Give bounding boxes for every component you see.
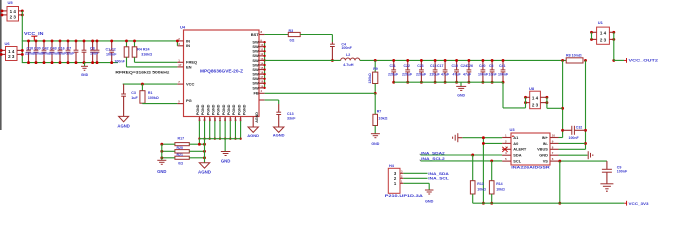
svg-text:100nF: 100nF <box>617 169 628 173</box>
svg-text:L2: L2 <box>346 53 350 57</box>
svg-text:SW: SW <box>252 85 259 90</box>
svg-text:R14: R14 <box>496 182 502 186</box>
svg-text:10kΩ: 10kΩ <box>477 188 486 192</box>
svg-text:RFREQ=316kΩ 500kHz: RFREQ=316kΩ 500kHz <box>115 70 169 75</box>
svg-text:R4 R24: R4 R24 <box>137 48 149 52</box>
svg-text:R21: R21 <box>177 153 183 157</box>
svg-text:220uF: 220uF <box>430 73 441 77</box>
svg-text:VCC: VCC <box>186 82 195 87</box>
svg-text:IN+: IN+ <box>542 135 549 140</box>
svg-text:C43: C43 <box>50 47 57 51</box>
svg-text:VCC_OUT2: VCC_OUT2 <box>629 57 660 62</box>
svg-text:14: 14 <box>218 118 222 122</box>
svg-text:C22: C22 <box>404 64 410 68</box>
svg-text:0Ω: 0Ω <box>178 162 183 166</box>
svg-text:C8: C8 <box>90 47 95 51</box>
svg-text:PGND: PGND <box>237 104 241 115</box>
svg-text:C42: C42 <box>42 47 49 51</box>
svg-text:C3: C3 <box>131 91 136 95</box>
svg-text:33nF: 33nF <box>287 117 296 121</box>
svg-text:U8: U8 <box>529 86 535 91</box>
svg-text:13: 13 <box>213 118 217 122</box>
svg-text:R17: R17 <box>178 137 185 141</box>
svg-text:C17: C17 <box>437 64 443 68</box>
svg-text:C41: C41 <box>499 64 505 68</box>
svg-text:A0: A0 <box>513 141 518 146</box>
svg-text:316kΩ: 316kΩ <box>141 53 152 57</box>
svg-text:U3: U3 <box>510 127 516 132</box>
svg-text:10kΩ: 10kΩ <box>378 117 387 121</box>
svg-text:PGND: PGND <box>242 104 246 115</box>
svg-text:10uF: 10uF <box>66 52 75 56</box>
svg-text:PGND: PGND <box>196 104 200 115</box>
svg-text:47uF: 47uF <box>453 73 462 77</box>
svg-text:47uF: 47uF <box>463 73 472 77</box>
svg-text:VCC_IN: VCC_IN <box>24 31 44 36</box>
svg-text:C40: C40 <box>479 64 485 68</box>
svg-text:47uF: 47uF <box>441 73 450 77</box>
svg-text:4.7uH: 4.7uH <box>343 63 354 67</box>
svg-text:U5: U5 <box>8 0 14 5</box>
svg-text:16: 16 <box>228 118 232 122</box>
svg-text:VCC_3V3: VCC_3V3 <box>629 201 650 206</box>
svg-text:10: 10 <box>198 118 202 122</box>
svg-text:0Ω: 0Ω <box>290 38 295 42</box>
svg-text:VBUS: VBUS <box>537 147 548 152</box>
svg-text:220uF: 220uF <box>388 73 399 77</box>
svg-text:PGND: PGND <box>222 104 226 115</box>
svg-text:12: 12 <box>208 118 212 122</box>
svg-text:R20: R20 <box>177 146 183 150</box>
svg-text:R8 10mΩ: R8 10mΩ <box>566 53 582 57</box>
svg-text:R7: R7 <box>377 110 382 114</box>
svg-text:220uF: 220uF <box>416 73 427 77</box>
svg-text:C16: C16 <box>58 47 65 51</box>
svg-text:11: 11 <box>203 118 207 121</box>
svg-text:AGND: AGND <box>255 112 259 123</box>
svg-text:PGND: PGND <box>232 104 236 115</box>
svg-text:R1: R1 <box>148 91 153 95</box>
svg-text:C32: C32 <box>576 126 582 130</box>
svg-text:SDA: SDA <box>513 153 521 158</box>
svg-text:18: 18 <box>239 118 243 122</box>
svg-text:INA226AIDGSR: INA226AIDGSR <box>511 166 550 170</box>
svg-text:C13: C13 <box>287 112 294 116</box>
svg-text:2 3: 2 3 <box>8 54 15 59</box>
svg-text:IN-: IN- <box>543 141 549 146</box>
svg-text:AGND: AGND <box>247 133 259 138</box>
svg-text:C30: C30 <box>34 47 41 51</box>
svg-text:A1: A1 <box>513 135 519 140</box>
svg-text:100nF: 100nF <box>569 136 580 140</box>
svg-text:MPQ8636GVE-20-Z: MPQ8636GVE-20-Z <box>200 69 243 74</box>
svg-text:P210-UP1D-3A: P210-UP1D-3A <box>385 194 423 198</box>
svg-text:17: 17 <box>178 63 182 67</box>
svg-text:R13: R13 <box>477 182 483 186</box>
svg-text:220uF: 220uF <box>402 73 413 77</box>
svg-text:GND: GND <box>221 159 231 164</box>
svg-text:FB: FB <box>253 91 258 96</box>
svg-text:2 3: 2 3 <box>600 38 607 43</box>
svg-text:U1: U1 <box>598 20 604 25</box>
svg-text:C7: C7 <box>67 47 72 51</box>
svg-text:PGND: PGND <box>206 104 210 115</box>
svg-text:100nF: 100nF <box>498 73 509 77</box>
svg-text:100kΩ: 100kΩ <box>148 96 159 100</box>
svg-text:SCL: SCL <box>513 159 521 164</box>
svg-text:10: 10 <box>552 134 556 138</box>
svg-text:AGND: AGND <box>198 170 211 175</box>
svg-text:INA_SCL: INA_SCL <box>428 177 450 181</box>
svg-text:C15: C15 <box>452 64 458 68</box>
svg-text:1 4: 1 4 <box>600 31 607 36</box>
svg-text:EN: EN <box>186 64 192 69</box>
svg-text:GND: GND <box>539 153 548 158</box>
svg-text:AGND: AGND <box>117 124 129 129</box>
svg-text:U4: U4 <box>180 25 186 30</box>
svg-text:INA_SCL2: INA_SCL2 <box>421 157 445 161</box>
svg-text:INA_SDA: INA_SDA <box>428 172 449 176</box>
svg-text:VS: VS <box>543 159 549 164</box>
svg-text:C13: C13 <box>430 64 436 68</box>
svg-text:2 3: 2 3 <box>10 14 17 19</box>
svg-text:2 3: 2 3 <box>532 103 539 108</box>
svg-text:C26: C26 <box>467 64 473 68</box>
svg-text:C11: C11 <box>390 64 396 68</box>
svg-text:100nF: 100nF <box>106 53 117 57</box>
svg-text:R9: R9 <box>373 67 378 71</box>
svg-text:PGND: PGND <box>212 104 216 115</box>
svg-text:C23: C23 <box>417 64 423 68</box>
svg-text:PGND: PGND <box>201 104 205 115</box>
svg-text:GND: GND <box>157 169 166 174</box>
svg-text:BST: BST <box>251 32 260 37</box>
svg-text:15: 15 <box>223 118 227 122</box>
svg-text:100nF: 100nF <box>341 46 352 50</box>
svg-text:ALERT: ALERT <box>513 147 527 152</box>
svg-text:R3: R3 <box>289 29 294 33</box>
svg-text:C1 C2: C1 C2 <box>106 48 116 52</box>
svg-text:10uF: 10uF <box>90 52 99 56</box>
svg-text:1 4: 1 4 <box>532 96 539 101</box>
svg-text:PGND: PGND <box>217 104 221 115</box>
svg-text:120kΩ: 120kΩ <box>368 73 372 84</box>
svg-text:PGND: PGND <box>227 104 231 115</box>
svg-text:100nF: 100nF <box>114 59 125 63</box>
svg-text:GND: GND <box>371 142 379 146</box>
svg-text:U6: U6 <box>5 41 11 46</box>
svg-text:INA_SDA2: INA_SDA2 <box>421 151 445 155</box>
svg-text:GND: GND <box>81 73 89 77</box>
svg-text:1uF: 1uF <box>131 96 138 100</box>
svg-text:17: 17 <box>234 118 238 122</box>
svg-text:GND: GND <box>457 94 465 98</box>
svg-text:C6: C6 <box>489 64 494 68</box>
svg-text:100nF: 100nF <box>478 73 489 77</box>
svg-text:AGND: AGND <box>273 133 285 138</box>
svg-text:PG: PG <box>186 98 192 103</box>
svg-text:10nF: 10nF <box>489 73 498 77</box>
svg-text:IN: IN <box>186 43 190 48</box>
svg-text:C10: C10 <box>27 47 34 51</box>
svg-text:10kΩ: 10kΩ <box>496 188 505 192</box>
svg-text:GND: GND <box>425 200 434 204</box>
